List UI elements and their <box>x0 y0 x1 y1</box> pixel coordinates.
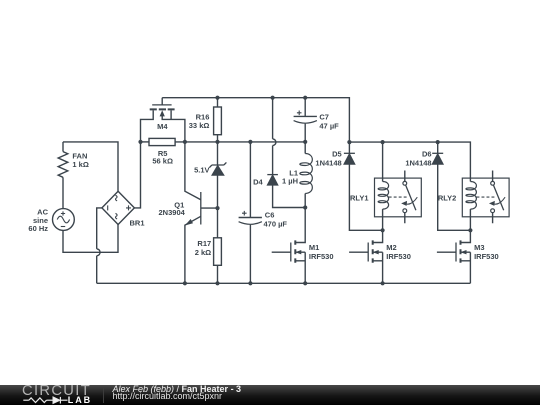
wire FAN column top <box>62 142 64 152</box>
transistor M3 IRF530 <box>437 230 471 283</box>
hop over AC wire <box>97 249 100 256</box>
svg-text:RLY1: RLY1 <box>350 194 368 203</box>
relay RLY2 <box>462 178 509 217</box>
svg-text:BR1: BR1 <box>130 219 145 228</box>
svg-text:1N4148: 1N4148 <box>405 159 431 168</box>
svg-text:56 kΩ: 56 kΩ <box>152 156 173 165</box>
svg-text:R17: R17 <box>197 239 211 248</box>
svg-text:IRF530: IRF530 <box>309 252 334 261</box>
logo CIRCUIT word <box>22 383 91 399</box>
svg-text:1N4148: 1N4148 <box>315 159 341 168</box>
logo LAB word <box>68 395 92 405</box>
capacitor C6 <box>249 142 251 218</box>
wire mid rail left segment <box>141 141 150 143</box>
wire top-left: FAN top to bridge top <box>63 142 118 191</box>
svg-text:M3: M3 <box>474 243 484 252</box>
svg-text:33 kΩ: 33 kΩ <box>189 121 210 130</box>
svg-text:IRF530: IRF530 <box>386 252 411 261</box>
svg-text:5.1V: 5.1V <box>194 166 209 175</box>
svg-text:D5: D5 <box>332 150 342 159</box>
svg-text:2N3904: 2N3904 <box>159 208 186 217</box>
transistor M2 IRF530 <box>349 230 383 283</box>
diode D4 column with hop <box>272 98 274 175</box>
transistor Q1 2N3904 <box>185 142 201 200</box>
transistor M1 IRF530 <box>272 208 306 284</box>
wire bridge minus to bottom rail with hop <box>97 208 102 283</box>
wire bottom rail <box>97 282 471 284</box>
source AC sine 60Hz <box>53 209 75 231</box>
bridge inner markings <box>108 195 131 219</box>
svg-text:D6: D6 <box>422 150 432 159</box>
footer bar <box>0 385 540 405</box>
svg-text:47 µF: 47 µF <box>319 122 339 131</box>
resistor R5 box <box>149 138 175 145</box>
relay RLY1 <box>382 142 384 181</box>
svg-text:470 µF: 470 µF <box>264 220 288 229</box>
footer text <box>113 384 242 394</box>
svg-text:M4: M4 <box>157 122 168 131</box>
svg-text:IRF530: IRF530 <box>474 252 499 261</box>
svg-text:C6: C6 <box>265 211 275 220</box>
diode D6 1N4148 <box>437 142 439 153</box>
diode D5 1N4148 <box>344 152 355 154</box>
svg-text:RLY2: RLY2 <box>438 194 456 203</box>
svg-text:M1: M1 <box>309 243 319 252</box>
wire top rail <box>162 98 349 154</box>
wire right rail <box>349 142 470 181</box>
svg-text:2 kΩ: 2 kΩ <box>195 248 211 257</box>
wire FAN to AC source <box>62 177 64 208</box>
capacitor C7 <box>304 98 306 117</box>
wire AC bottom to bridge <box>63 225 118 253</box>
resistor FAN <box>58 152 68 178</box>
svg-text:1 µH: 1 µH <box>282 177 298 186</box>
resistor R16 <box>217 98 219 107</box>
wire mid rail <box>175 141 305 143</box>
wire bridge plus up to mid rail <box>134 142 140 208</box>
bridge rectifier BR1 diamond <box>102 191 134 224</box>
svg-text:60 Hz: 60 Hz <box>28 224 48 233</box>
svg-text:D4: D4 <box>253 177 263 186</box>
svg-text:1 kΩ: 1 kΩ <box>72 160 88 169</box>
resistor R17 box <box>214 238 222 265</box>
transistor M4 PMOS <box>161 98 163 105</box>
diode zener 5.1V <box>217 142 219 165</box>
svg-text:C7: C7 <box>319 113 329 122</box>
inductor L1 <box>304 142 306 154</box>
svg-text:M2: M2 <box>386 243 396 252</box>
